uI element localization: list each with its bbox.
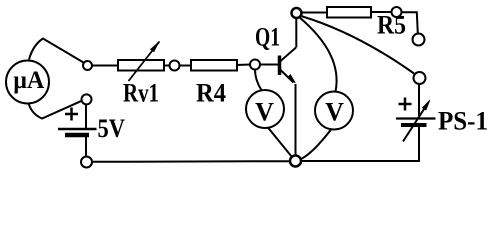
svg-text:5V: 5V (98, 114, 126, 143)
wire (bottom rail left) (92, 160, 291, 163)
voltmeter V1 (246, 90, 284, 128)
wire (180, 65, 192, 67)
node J (terminal) (81, 157, 92, 168)
wire (V1 to bottom node) (268, 127, 293, 157)
wire (260, 64, 279, 66)
power supply PS-1 (396, 98, 436, 142)
wire (371, 11, 392, 13)
svg-text:µA: µA (13, 67, 44, 94)
wire (85, 137, 87, 156)
resistor R4 (191, 60, 237, 71)
node G (terminal) (414, 72, 426, 84)
battery B1 5V (58, 108, 97, 136)
wire (85, 104, 87, 128)
wire (29, 39, 84, 63)
svg-text:V: V (325, 97, 344, 126)
svg-text:V: V (255, 97, 274, 126)
wire (collector to node) (295, 18, 297, 47)
node A (terminal) (83, 61, 92, 70)
wire (µA to battery terminal) (29, 101, 82, 119)
wire (emitter down) (295, 84, 297, 156)
node I (terminal) (82, 94, 92, 104)
transistor Q1 (280, 48, 297, 83)
wire (PS-1 bottom) (418, 127, 420, 162)
wire (92, 65, 118, 67)
svg-text:PS-1: PS-1 (438, 107, 488, 136)
node C (terminal) (250, 60, 260, 70)
node H (bottom junction) (290, 156, 301, 167)
wire (node C to voltmeter V1) (255, 70, 262, 91)
voltmeter V2 (315, 92, 353, 130)
wire (node D to PS-1 terminal) (301, 16, 414, 74)
resistor R5 (327, 7, 371, 18)
svg-text:Q1: Q1 (255, 23, 280, 52)
svg-text:Rv1: Rv1 (123, 79, 159, 108)
wire (237, 64, 250, 67)
node E (terminal) (392, 7, 402, 17)
wire (164, 65, 170, 67)
svg-text:R4: R4 (196, 79, 226, 108)
wire (PS-1 positive terminal) (418, 84, 420, 117)
wire (402, 12, 418, 33)
variable resistor Rv1 (118, 42, 164, 82)
node D (top junction) (292, 8, 302, 18)
wire (node D to voltmeter V2) (299, 17, 337, 92)
node B (terminal) (170, 61, 180, 71)
node F (terminal) (413, 34, 425, 46)
wire (302, 12, 328, 14)
wire (bottom rail right) (301, 160, 420, 162)
wire (V2 to bottom node) (301, 130, 331, 160)
microammeter M1 (6, 61, 49, 104)
